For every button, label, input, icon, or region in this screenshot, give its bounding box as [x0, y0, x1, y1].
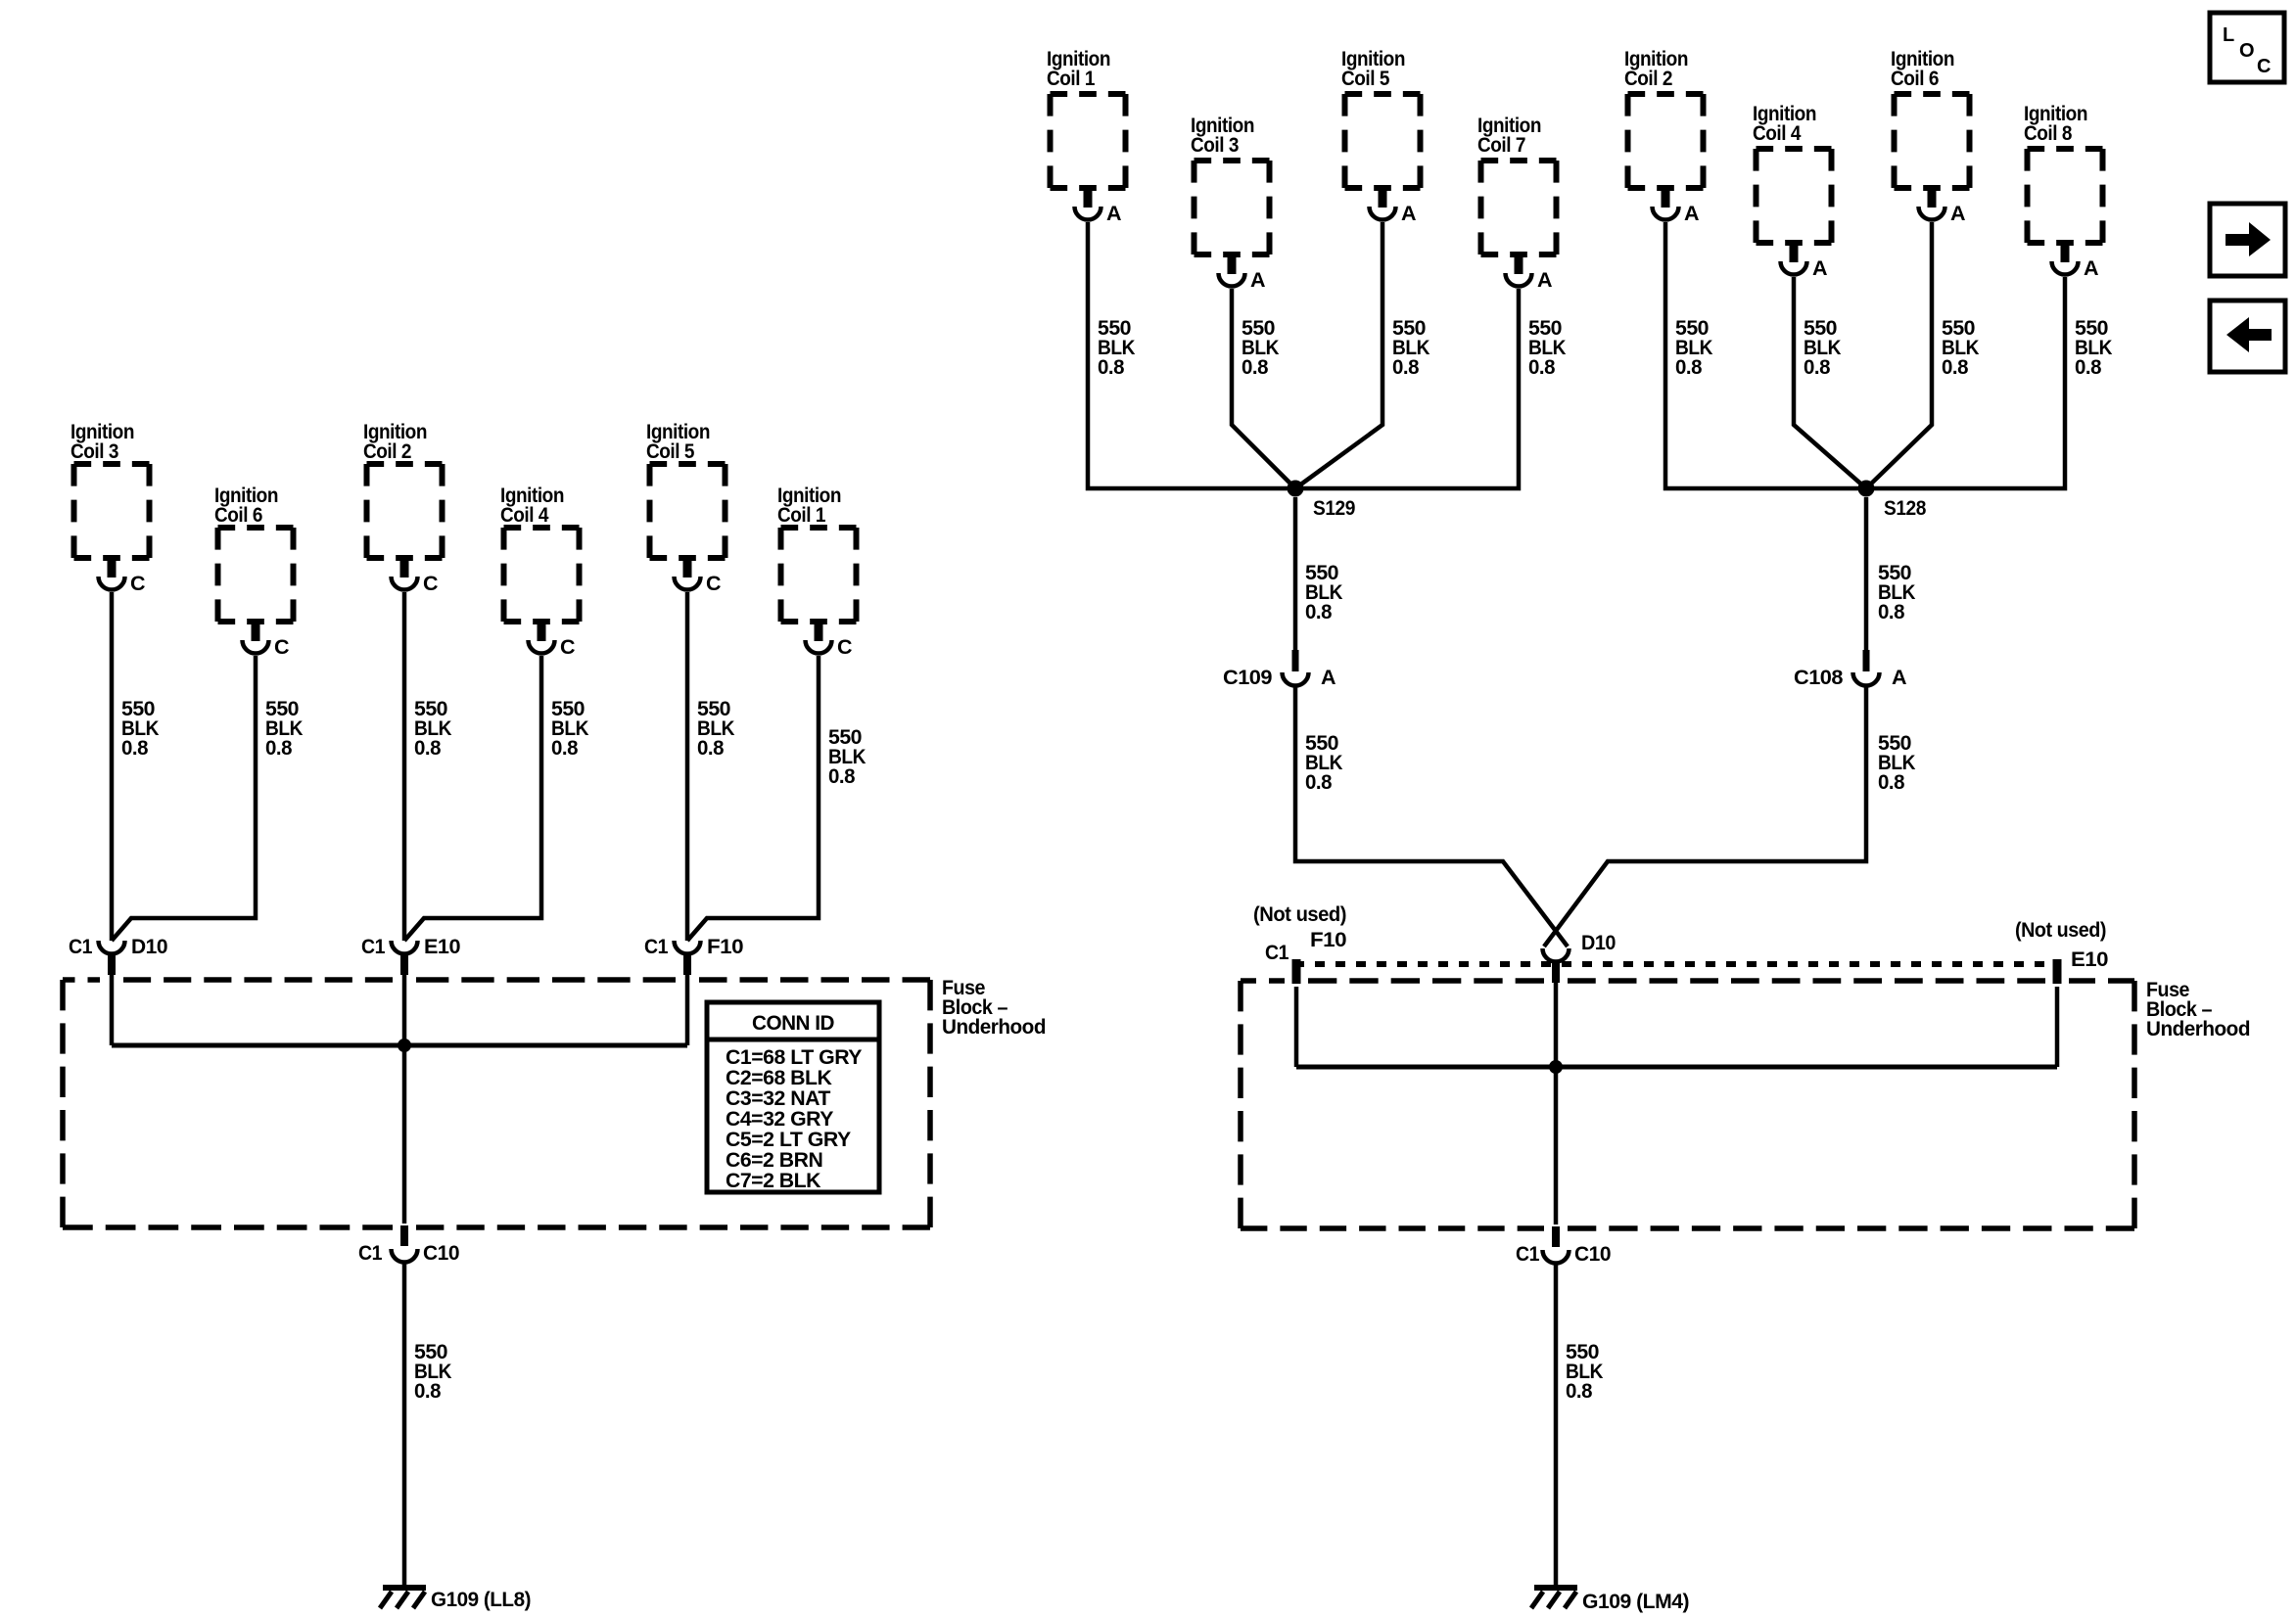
wire coil3 to D10: [110, 592, 115, 941]
connector C1 pin C10 (left): [358, 1225, 460, 1265]
ignition coil 2 (left engine LL8): [363, 420, 443, 595]
wire coil4 to E10: [404, 656, 541, 941]
svg-text:Coil 7: Coil 7: [1477, 133, 1525, 157]
LOC legend icon: [2210, 13, 2284, 82]
fuse block - underhood (left) dashed outline: [63, 980, 930, 1227]
connector C1 pin F10 (fuse block): [644, 935, 744, 983]
ignition coil 2 (right engine LM4): [1624, 47, 1704, 225]
svg-text:0.8: 0.8: [1566, 1379, 1593, 1403]
wire D10 internal: [110, 983, 115, 1045]
svg-text:C1: C1: [1516, 1242, 1539, 1266]
wire coil5 to S129: [1295, 222, 1382, 488]
svg-text:(Not used): (Not used): [1253, 902, 1346, 926]
svg-text:D10: D10: [1581, 931, 1616, 954]
junction dot right bus: [1549, 1060, 1563, 1074]
svg-text:A: A: [1401, 202, 1416, 225]
svg-text:C10: C10: [1574, 1242, 1612, 1266]
svg-text:0.8: 0.8: [1392, 355, 1420, 379]
ignition coil 4 (right engine LM4): [1753, 102, 1832, 280]
svg-text:0.8: 0.8: [2075, 355, 2102, 379]
svg-text:0.8: 0.8: [1305, 600, 1333, 624]
fuse block - underhood (right) dashed outline: [1241, 981, 2134, 1228]
svg-text:S128: S128: [1884, 496, 1926, 520]
wire coil8 to S128: [1866, 277, 2065, 488]
connector C1 pin D10 (right fuse block): [1543, 931, 1617, 987]
svg-text:C: C: [2257, 56, 2271, 77]
svg-text:C: C: [274, 635, 289, 659]
fuse block label: [942, 976, 1046, 1039]
svg-text:A: A: [1106, 202, 1121, 225]
svg-text:0.8: 0.8: [1804, 355, 1831, 379]
svg-text:Coil 4: Coil 4: [1753, 121, 1801, 145]
ignition coil 1 (left engine LL8): [777, 484, 857, 659]
fuse block label (right): [2146, 978, 2250, 1040]
svg-text:Coil 3: Coil 3: [1191, 133, 1239, 157]
svg-text:Coil 1: Coil 1: [777, 503, 825, 527]
svg-text:C10: C10: [423, 1241, 460, 1265]
svg-text:0.8: 0.8: [1528, 355, 1556, 379]
svg-text:0.8: 0.8: [1242, 355, 1269, 379]
wire E10 to C10: [402, 983, 407, 1224]
svg-text:Coil 1: Coil 1: [1047, 67, 1095, 90]
svg-text:F10: F10: [1310, 928, 1347, 951]
ground G109 (LM4): [1534, 1585, 1577, 1591]
wire coil2 to S128: [1665, 222, 1866, 488]
svg-text:A: A: [1812, 256, 1827, 280]
connector C108 pin A: [1794, 650, 1906, 689]
wire D10 to C10 (right): [1554, 987, 1559, 1224]
svg-text:E10: E10: [2071, 947, 2109, 971]
ignition coil 8 (right engine LM4): [2024, 102, 2103, 280]
svg-text:Coil 3: Coil 3: [70, 439, 118, 463]
wire coil1 to F10: [687, 656, 819, 941]
pin E10 (not used) tick: [2053, 959, 2062, 984]
svg-text:S129: S129: [1313, 496, 1355, 520]
svg-text:O: O: [2239, 40, 2254, 62]
right arrow icon: [2210, 204, 2285, 276]
svg-text:Coil 5: Coil 5: [646, 439, 694, 463]
svg-text:D10: D10: [131, 935, 168, 958]
connector C1 pin C10 (right): [1516, 1226, 1612, 1266]
svg-text:0.8: 0.8: [1878, 770, 1905, 794]
wire coil6 to D10: [112, 656, 256, 941]
wire coil7 to S129: [1295, 289, 1519, 488]
connector C1 face (dotted, not used pins): [1294, 961, 2061, 967]
svg-text:0.8: 0.8: [551, 736, 579, 760]
svg-text:C: C: [423, 572, 438, 595]
svg-text:E10: E10: [424, 935, 461, 958]
wire C10 to G109 (left): [402, 1264, 407, 1588]
ignition coil 6 (left engine LL8): [214, 484, 294, 659]
ignition coil 7 (right engine LM4): [1477, 114, 1557, 292]
svg-text:C7=2 BLK: C7=2 BLK: [726, 1169, 821, 1192]
svg-text:C: C: [130, 572, 145, 595]
svg-text:A: A: [1250, 268, 1265, 292]
svg-text:F10: F10: [707, 935, 744, 958]
svg-text:0.8: 0.8: [1305, 770, 1333, 794]
wire C10 to G109 (right): [1554, 1265, 1559, 1588]
svg-text:C: C: [706, 572, 721, 595]
wire S129 to C109: [1293, 497, 1298, 652]
wire C109 to D10: [1295, 687, 1568, 947]
svg-text:G109 (LL8): G109 (LL8): [431, 1588, 531, 1611]
svg-text:C1: C1: [644, 935, 668, 958]
svg-text:Underhood: Underhood: [2146, 1017, 2250, 1040]
svg-text:A: A: [1892, 666, 1906, 689]
svg-text:C: C: [837, 635, 852, 659]
svg-text:0.8: 0.8: [1878, 600, 1905, 624]
ignition coil 5 (right engine LM4): [1341, 47, 1421, 225]
wire coil3 to S129: [1232, 289, 1295, 488]
wire C108 to D10: [1544, 687, 1866, 947]
left arrow icon: [2210, 300, 2285, 372]
svg-text:C1: C1: [361, 935, 385, 958]
svg-text:Coil 2: Coil 2: [363, 439, 411, 463]
svg-text:0.8: 0.8: [414, 1379, 442, 1403]
ground bus (right fuse block): [1296, 1065, 2057, 1070]
svg-text:0.8: 0.8: [1942, 355, 1969, 379]
svg-text:Coil 4: Coil 4: [500, 503, 548, 527]
wire coil1 to S129: [1088, 222, 1295, 488]
svg-text:(Not used): (Not used): [2015, 918, 2106, 942]
svg-text:C1: C1: [358, 1241, 382, 1265]
svg-text:0.8: 0.8: [121, 736, 149, 760]
ground G109 (LL8): [383, 1585, 426, 1591]
ignition coil 6 (right engine LM4): [1891, 47, 1970, 225]
svg-text:L: L: [2223, 24, 2234, 46]
ignition coil 3 (right engine LM4): [1191, 114, 1270, 292]
svg-text:Coil 5: Coil 5: [1341, 67, 1389, 90]
ignition coil 4 (left engine LL8): [500, 484, 580, 659]
svg-text:0.8: 0.8: [1675, 355, 1703, 379]
svg-text:Coil 6: Coil 6: [214, 503, 262, 527]
junction dot left bus: [398, 1039, 411, 1052]
wire coil6 to S128: [1866, 222, 1932, 488]
svg-text:0.8: 0.8: [828, 764, 856, 788]
splice S129: [1288, 481, 1304, 497]
ignition coil 3 (left engine LL8): [70, 420, 150, 595]
wire coil4 to S128: [1794, 277, 1866, 488]
svg-text:C1: C1: [1265, 941, 1289, 964]
svg-text:Coil 8: Coil 8: [2024, 121, 2072, 145]
wire E10 internal (right): [2055, 987, 2060, 1067]
CONN ID table: [707, 1002, 879, 1192]
ground bus (left fuse block): [112, 1043, 687, 1048]
ignition coil 1 (right engine LM4): [1047, 47, 1126, 225]
wire coil5 to F10: [685, 592, 690, 941]
svg-text:0.8: 0.8: [1098, 355, 1125, 379]
ignition coil 5 (left engine LL8): [646, 420, 726, 595]
svg-text:C: C: [560, 635, 575, 659]
svg-text:C108: C108: [1794, 666, 1844, 689]
wire F10 internal (right): [1294, 987, 1299, 1067]
svg-text:A: A: [2084, 256, 2098, 280]
svg-text:C109: C109: [1223, 666, 1273, 689]
svg-text:A: A: [1684, 202, 1699, 225]
svg-text:0.8: 0.8: [414, 736, 442, 760]
splice S128: [1858, 481, 1875, 497]
svg-text:A: A: [1950, 202, 1965, 225]
wire F10 internal: [685, 983, 690, 1045]
svg-text:CONN ID: CONN ID: [752, 1011, 834, 1035]
svg-text:Underhood: Underhood: [942, 1015, 1046, 1039]
wire coil2 to E10: [402, 592, 407, 941]
pin F10 (not used) tick: [1292, 959, 1301, 984]
svg-text:C1: C1: [69, 935, 92, 958]
connector C1 pin D10 (fuse block): [69, 935, 168, 983]
connector C109 pin A: [1223, 650, 1335, 689]
svg-text:Coil 6: Coil 6: [1891, 67, 1939, 90]
connector C1 pin E10 (fuse block): [361, 935, 461, 983]
svg-text:Coil 2: Coil 2: [1624, 67, 1672, 90]
svg-text:A: A: [1321, 666, 1335, 689]
svg-text:0.8: 0.8: [697, 736, 725, 760]
svg-text:A: A: [1537, 268, 1552, 292]
wire S128 to C108: [1864, 497, 1869, 652]
svg-text:0.8: 0.8: [265, 736, 293, 760]
svg-text:G109 (LM4): G109 (LM4): [1582, 1590, 1689, 1613]
